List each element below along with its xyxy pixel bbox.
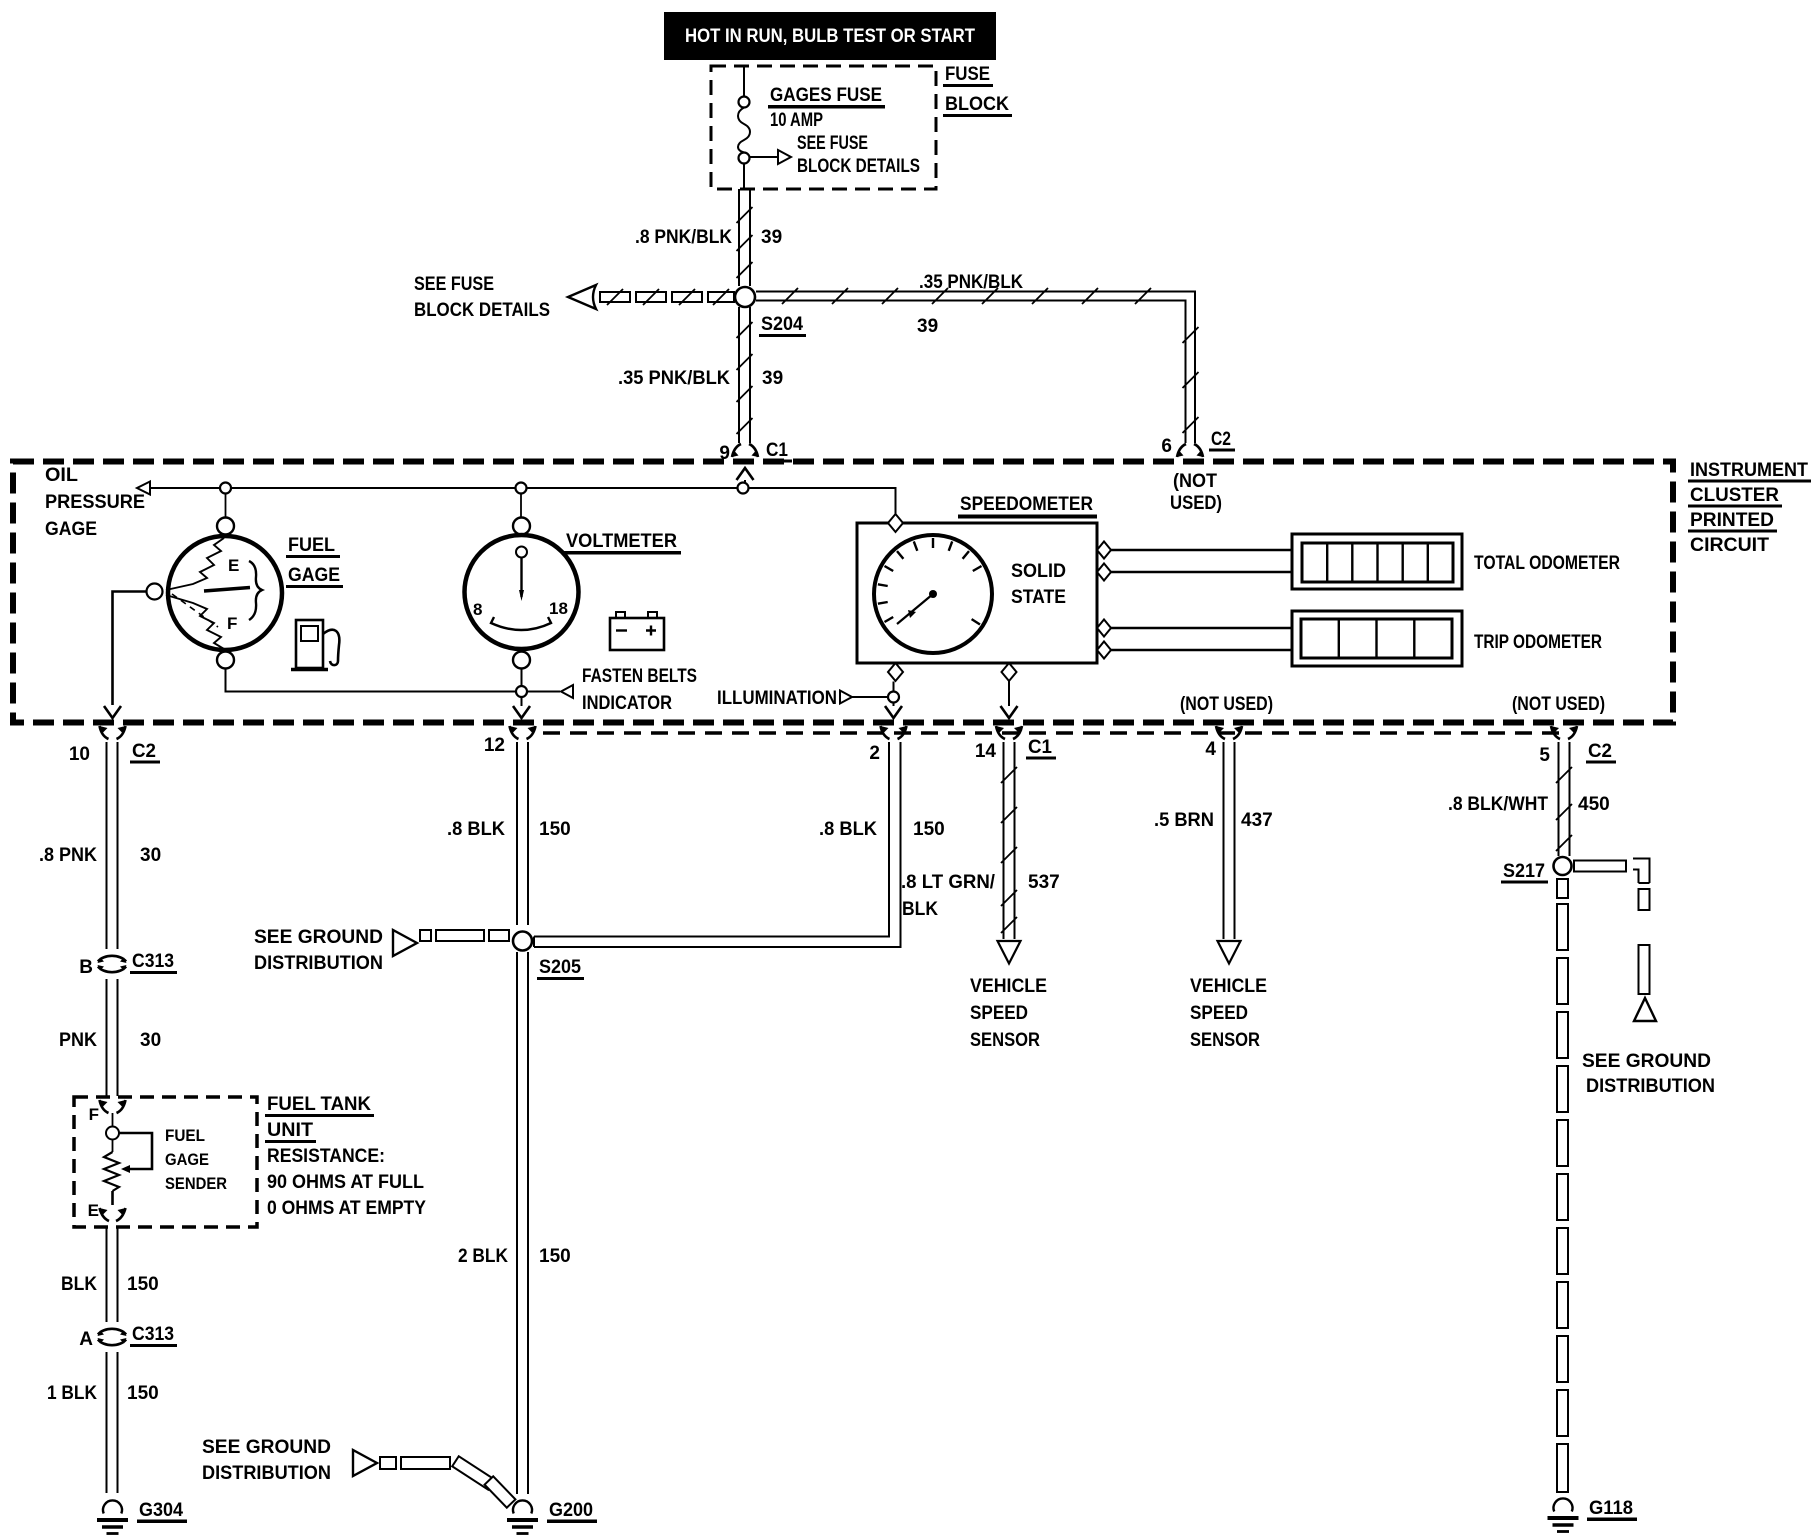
see ground distribution branch (S217) — [1574, 859, 1715, 1098]
fuse block box — [711, 66, 936, 189]
svg-text:INSTRUMENT: INSTRUMENT — [1690, 460, 1808, 481]
label .8 BLK 150 pin 2 — [819, 819, 945, 840]
arrow onto pin 2 — [885, 706, 902, 718]
svg-text:S205: S205 — [539, 957, 581, 978]
svg-text:OIL: OIL — [45, 465, 78, 486]
wire .8 BLK/WHT 450 pin 5 to S217 — [1448, 742, 1610, 856]
inner dashed line at cluster bottom — [543, 731, 1563, 735]
illumination arrow and node — [840, 682, 899, 707]
svg-text:537: 537 — [1028, 872, 1060, 893]
see fuse block details arrow (in fuse box) — [750, 133, 921, 177]
svg-text:E: E — [88, 1201, 99, 1220]
wire .35 PNK/BLK 39 S204 to C2-6 — [756, 272, 1199, 443]
svg-text:150: 150 — [913, 819, 945, 840]
svg-text:FUSE: FUSE — [945, 64, 990, 85]
svg-text:.35 PNK/BLK: .35 PNK/BLK — [618, 368, 730, 389]
arrow to vehicle speed sensor (14) — [998, 941, 1021, 964]
label (NOT USED) pin 4 — [1180, 694, 1273, 715]
svg-text:12: 12 — [484, 735, 505, 756]
connector pin 5 C2 — [1539, 726, 1616, 766]
svg-text:18: 18 — [549, 599, 568, 618]
svg-text:TOTAL ODOMETER: TOTAL ODOMETER — [1474, 553, 1620, 574]
svg-text:0 OHMS AT EMPTY: 0 OHMS AT EMPTY — [267, 1198, 426, 1219]
wire .8 PNK 30 pin 10 to C313-B — [39, 742, 161, 949]
svg-text:SEE GROUND: SEE GROUND — [1582, 1051, 1711, 1072]
voltmeter bottom terminal — [513, 652, 530, 669]
see ground distribution arrow (S205) — [254, 927, 509, 974]
svg-text:UNIT: UNIT — [267, 1120, 313, 1141]
svg-text:E: E — [228, 556, 239, 575]
svg-text:C313: C313 — [132, 1324, 174, 1345]
label INSTRUMENT CLUSTER PRINTED CIRCUIT — [1688, 460, 1811, 556]
svg-text:(NOT USED): (NOT USED) — [1512, 694, 1605, 715]
trip odometer — [1292, 611, 1462, 666]
svg-text:C2: C2 — [132, 741, 156, 762]
wire fuel gage to pin 10 — [113, 592, 147, 706]
svg-text:DISTRIBUTION: DISTRIBUTION — [1586, 1076, 1715, 1097]
svg-text:PRESSURE: PRESSURE — [45, 492, 145, 513]
wire fuel gage to fasten belts node — [226, 669, 516, 692]
speedometer solid state box — [857, 523, 1097, 663]
connector pin 4 — [1205, 726, 1242, 760]
connector pin 6 C2 — [1161, 429, 1235, 457]
label (NOT USED) top — [1170, 471, 1222, 514]
see ground distribution arrow (G200) — [202, 1437, 515, 1508]
svg-text:G200: G200 — [549, 1500, 593, 1521]
svg-text:14: 14 — [975, 741, 997, 762]
arrow into bus from pin 9 — [737, 468, 754, 483]
svg-text:INDICATOR: INDICATOR — [582, 693, 672, 714]
bus junction at voltmeter — [516, 483, 527, 494]
arrow onto pin 14 — [1001, 706, 1018, 718]
fuel gage sender wiper — [120, 1133, 153, 1173]
svg-text:USED): USED) — [1170, 493, 1222, 514]
arrow to vehicle speed sensor (4) — [1218, 941, 1241, 964]
svg-text:C1: C1 — [1028, 737, 1052, 758]
label SOLID STATE — [1011, 561, 1066, 608]
svg-text:1 BLK: 1 BLK — [47, 1383, 97, 1404]
bus junction at fuel gage — [220, 483, 231, 494]
total odometer — [1292, 534, 1462, 589]
svg-text:SPEED: SPEED — [1190, 1003, 1248, 1024]
svg-text:150: 150 — [127, 1274, 159, 1295]
voltmeter top terminal — [513, 494, 530, 535]
svg-text:.35 PNK/BLK: .35 PNK/BLK — [919, 272, 1023, 293]
arrow onto pin 12 — [513, 706, 530, 718]
svg-text:DISTRIBUTION: DISTRIBUTION — [202, 1463, 331, 1484]
battery icon — [610, 612, 664, 650]
svg-text:FASTEN BELTS: FASTEN BELTS — [582, 666, 697, 687]
svg-text:STATE: STATE — [1011, 587, 1066, 608]
see fuse block details arrow (left of S204) — [414, 274, 734, 321]
label FASTEN BELTS INDICATOR — [582, 666, 697, 714]
printed circuit bus wire — [150, 488, 896, 514]
svg-text:BLOCK DETAILS: BLOCK DETAILS — [414, 300, 550, 321]
speedometer gauge — [874, 535, 992, 653]
label FUEL TANK UNIT RESISTANCE — [265, 1094, 426, 1219]
svg-text:C2: C2 — [1588, 741, 1612, 762]
svg-text:SENDER: SENDER — [165, 1174, 227, 1193]
svg-text:(NOT USED): (NOT USED) — [1180, 694, 1273, 715]
label SPEEDOMETER — [958, 494, 1097, 519]
label TOTAL ODOMETER — [1474, 553, 1620, 574]
svg-text:A: A — [79, 1329, 93, 1350]
fasten belts node — [516, 669, 573, 707]
svg-text:90 OHMS AT FULL: 90 OHMS AT FULL — [267, 1172, 424, 1193]
label FUEL GAGE SENDER — [165, 1126, 227, 1193]
power feed banner — [664, 12, 996, 60]
fuel gage sender R1 — [104, 1113, 119, 1205]
svg-text:.8 PNK/BLK: .8 PNK/BLK — [635, 227, 732, 248]
label VOLTMETER — [564, 531, 681, 555]
fuel tank unit pin E — [88, 1201, 126, 1221]
svg-text:.8 BLK: .8 BLK — [819, 819, 877, 840]
label (NOT USED) pin 5 — [1512, 694, 1605, 715]
arrow onto pin 10 — [104, 706, 121, 718]
gages fuse F1 — [738, 66, 750, 189]
wire S205 to pin 2 (horizontal) — [534, 742, 901, 947]
voltmeter G2 — [465, 535, 579, 649]
svg-text:PNK: PNK — [59, 1030, 97, 1051]
svg-text:10 AMP: 10 AMP — [770, 110, 823, 131]
svg-text:BLOCK: BLOCK — [945, 94, 1009, 115]
svg-text:SPEED: SPEED — [970, 1003, 1028, 1024]
svg-text:VEHICLE: VEHICLE — [970, 976, 1047, 997]
svg-text:39: 39 — [761, 227, 782, 248]
connector pin 14 C1 — [975, 726, 1056, 762]
svg-text:C1: C1 — [766, 440, 788, 461]
svg-text:437: 437 — [1241, 810, 1273, 831]
speedometer output diamonds — [1097, 542, 1111, 659]
svg-text:BLOCK DETAILS: BLOCK DETAILS — [797, 156, 920, 177]
connector C313 pin B — [79, 951, 177, 978]
svg-text:F: F — [89, 1105, 99, 1124]
svg-text:RESISTANCE:: RESISTANCE: — [267, 1146, 385, 1167]
wire BLK 150 fuel tank to C313-A — [61, 1227, 159, 1322]
wire .35 PNK/BLK 39 S204 to C1-9 — [618, 307, 783, 443]
svg-text:CLUSTER: CLUSTER — [1690, 485, 1779, 506]
wires to total odometer — [1111, 550, 1292, 572]
svg-text:SEE FUSE: SEE FUSE — [797, 133, 868, 154]
ground G200 — [507, 1500, 597, 1534]
wire 1 BLK 150 C313-A to G304 — [47, 1352, 159, 1493]
svg-text:SENSOR: SENSOR — [1190, 1030, 1260, 1051]
ground G118 — [1548, 1498, 1638, 1532]
splice S217 — [1501, 857, 1572, 884]
connector pin 12 — [484, 726, 536, 756]
svg-text:SENSOR: SENSOR — [970, 1030, 1040, 1051]
svg-text:GAGES FUSE: GAGES FUSE — [770, 85, 882, 106]
svg-text:B: B — [79, 957, 93, 978]
svg-text:.8 PNK: .8 PNK — [39, 845, 97, 866]
svg-text:.8 LT GRN/: .8 LT GRN/ — [901, 872, 996, 893]
svg-text:GAGE: GAGE — [45, 519, 97, 540]
svg-text:TRIP ODOMETER: TRIP ODOMETER — [1474, 632, 1602, 653]
svg-text:150: 150 — [127, 1383, 159, 1404]
wire 2 BLK 150 S205 to G200 — [458, 952, 571, 1494]
svg-text:2 BLK: 2 BLK — [458, 1246, 508, 1267]
fuel pump icon — [291, 620, 339, 670]
svg-text:C313: C313 — [132, 951, 174, 972]
svg-text:PRINTED: PRINTED — [1690, 510, 1774, 531]
svg-text:8: 8 — [473, 600, 482, 619]
svg-text:S217: S217 — [1503, 861, 1545, 882]
svg-text:SOLID: SOLID — [1011, 561, 1066, 582]
svg-text:.8 BLK/WHT: .8 BLK/WHT — [1448, 794, 1548, 815]
svg-text:FUEL TANK: FUEL TANK — [267, 1094, 371, 1115]
svg-text:6: 6 — [1161, 436, 1172, 457]
svg-text:5: 5 — [1539, 745, 1550, 766]
svg-text:S204: S204 — [761, 314, 803, 335]
wire .8 LT GRN/BLK 537 pin 14 to sensor — [901, 742, 1060, 939]
svg-text:4: 4 — [1205, 739, 1216, 760]
wires to trip odometer — [1111, 628, 1292, 650]
svg-text:39: 39 — [917, 316, 938, 337]
label VEHICLE SPEED SENSOR (right) — [1190, 976, 1267, 1051]
connector pin 9 C1 — [719, 440, 792, 464]
label FUEL GAGE — [286, 535, 343, 588]
wire .5 BRN 437 pin 4 to sensor — [1154, 742, 1273, 939]
svg-text:ILLUMINATION: ILLUMINATION — [717, 688, 837, 709]
svg-text:HOT IN RUN, BULB TEST OR START: HOT IN RUN, BULB TEST OR START — [685, 26, 975, 47]
instrument cluster printed circuit box — [13, 462, 1673, 723]
dashed wire S217 to G118 — [1557, 879, 1568, 1492]
fuel tank unit pin F — [89, 1100, 126, 1124]
wire .8 PNK/BLK 39 fuse to S204 — [635, 189, 782, 286]
svg-text:.8 BLK: .8 BLK — [447, 819, 505, 840]
svg-text:VEHICLE: VEHICLE — [1190, 976, 1267, 997]
ground G304 — [97, 1500, 187, 1534]
fuel gage G1 — [166, 536, 282, 650]
svg-text:F: F — [227, 614, 237, 633]
label VEHICLE SPEED SENSOR (left) — [970, 976, 1047, 1051]
label GAGES FUSE 10 AMP — [768, 85, 885, 131]
oil pressure gage arrow — [137, 482, 150, 495]
svg-text:G304: G304 — [139, 1500, 183, 1521]
svg-text:BLK: BLK — [902, 899, 938, 920]
speedometer bottom diamonds — [888, 663, 1017, 681]
connector pin 10 C2 — [69, 726, 160, 765]
svg-text:DISTRIBUTION: DISTRIBUTION — [254, 953, 383, 974]
splice S205 — [513, 932, 584, 981]
svg-text:C2: C2 — [1211, 429, 1231, 450]
svg-text:BLK: BLK — [61, 1274, 97, 1295]
svg-text:10: 10 — [69, 744, 90, 765]
svg-text:450: 450 — [1578, 794, 1610, 815]
svg-text:SEE FUSE: SEE FUSE — [414, 274, 494, 295]
svg-text:30: 30 — [140, 845, 161, 866]
label OIL PRESSURE GAGE — [45, 465, 145, 540]
splice S204 — [735, 287, 806, 337]
label TRIP ODOMETER — [1474, 632, 1602, 653]
svg-text:FUEL: FUEL — [288, 535, 335, 556]
speedometer input diamond — [888, 514, 903, 532]
svg-text:30: 30 — [140, 1030, 161, 1051]
bus junction at pin 9 — [738, 483, 749, 494]
svg-text:G118: G118 — [1589, 1498, 1633, 1519]
svg-text:GAGE: GAGE — [165, 1150, 209, 1169]
svg-text:FUEL: FUEL — [165, 1126, 205, 1145]
svg-text:.5 BRN: .5 BRN — [1154, 810, 1214, 831]
svg-text:(NOT: (NOT — [1173, 471, 1217, 492]
svg-text:VOLTMETER: VOLTMETER — [566, 531, 677, 552]
fuel gage left terminal — [147, 584, 163, 600]
wire speedometer to pin 14 — [1008, 681, 1010, 706]
svg-text:SEE GROUND: SEE GROUND — [202, 1437, 331, 1458]
fuel gage bottom terminal — [217, 652, 234, 669]
fuel tank unit box — [74, 1097, 257, 1227]
label FUSE BLOCK — [943, 64, 1012, 117]
svg-text:150: 150 — [539, 1246, 571, 1267]
connector pin 2 — [869, 726, 906, 764]
svg-text:CIRCUIT: CIRCUIT — [1690, 535, 1769, 556]
label ILLUMINATION — [717, 688, 837, 709]
svg-text:SPEEDOMETER: SPEEDOMETER — [960, 494, 1093, 515]
wire .8 BLK 150 pin 12 to S205 — [447, 742, 571, 925]
svg-text:2: 2 — [869, 743, 880, 764]
svg-text:SEE GROUND: SEE GROUND — [254, 927, 383, 948]
wire PNK 30 C313-B to fuel tank unit — [59, 979, 161, 1096]
connector C313 pin A — [79, 1324, 177, 1350]
fuel gage top terminal — [217, 494, 234, 535]
svg-text:GAGE: GAGE — [288, 565, 340, 586]
svg-text:39: 39 — [762, 368, 783, 389]
svg-text:150: 150 — [539, 819, 571, 840]
